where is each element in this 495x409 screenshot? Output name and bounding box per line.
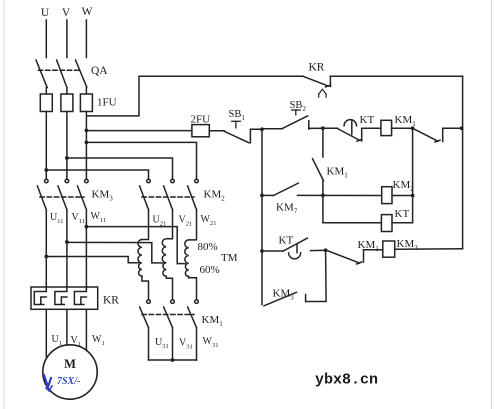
svg-text:U11: U11 [50, 212, 64, 225]
contact KM1 self-holding NO [313, 159, 324, 181]
wire control feed top (W tap to upper rail) [87, 76, 303, 116]
svg-text:TM: TM [221, 252, 238, 264]
switch QA pole 3 [76, 60, 87, 87]
wire to KM3 coil [364, 249, 383, 251]
wire U fuse to KM3 contact [45, 112, 47, 180]
wire KM3 coil to right rail [395, 248, 463, 251]
wire self-hold branch upper [322, 128, 324, 157]
fuse 1FU-b [61, 94, 73, 112]
wire KM3-a to KR [45, 210, 47, 287]
wire row3 rail to KT contact [262, 250, 283, 252]
wire KR to motor W1 [85, 309, 87, 350]
contactor KM2 main contact b [164, 179, 175, 210]
relay KR heater box [31, 287, 98, 309]
svg-text:U1: U1 [52, 334, 62, 347]
relay KR heater element c [74, 287, 86, 305]
wire W below QA [85, 87, 87, 94]
node W-KM2 tap [85, 141, 89, 145]
contactor KM1 linkage (dashed) [142, 314, 194, 316]
border frame right [491, 0, 493, 409]
svg-text:60%: 60% [200, 264, 220, 276]
svg-text:KM1: KM1 [202, 314, 224, 328]
wire row2 rail to contact [262, 194, 274, 196]
coil KT [381, 215, 392, 232]
svg-text:KT: KT [395, 208, 410, 220]
contact KM3 self-holding NO [264, 292, 306, 306]
coil KM1 [381, 120, 392, 135]
contact KT NC timed-opening (row 1) [338, 120, 362, 142]
svg-text:KT: KT [279, 235, 294, 247]
svg-text:KM7: KM7 [276, 202, 298, 216]
contactor KM2 main contact c [188, 179, 199, 210]
wire KT contact to node E [311, 249, 326, 251]
node rail row1 [460, 126, 464, 130]
button SB1 (NC stop) [224, 121, 262, 143]
svg-text:M: M [64, 357, 76, 371]
svg-text:KT: KT [360, 114, 375, 126]
watermark blue logo [44, 375, 52, 391]
contactor KM3 main contact a [37, 179, 48, 210]
wire KM1-a down [148, 328, 150, 361]
wire KR to motor U1 [45, 309, 47, 358]
svg-text:U21: U21 [153, 215, 167, 228]
wire KM2 coil right [392, 195, 413, 197]
wire V below QA [66, 88, 68, 95]
node C [411, 126, 415, 130]
svg-text:SB1: SB1 [229, 109, 246, 122]
switch QA pole 2 [57, 60, 67, 88]
switch QA pole 1 [36, 60, 47, 88]
svg-text:7SX/-: 7SX/- [57, 376, 80, 387]
wire KM2-c to TM3 top [189, 210, 197, 240]
svg-text:V: V [62, 7, 71, 19]
wire KM2-a to TM1 top [142, 210, 149, 240]
contactor KM3 main contact c [78, 179, 89, 210]
contactor KM1 main contact c [188, 300, 199, 328]
wire phase U top [45, 20, 47, 58]
wire TM1 bottom to KM1-a [142, 276, 149, 299]
svg-text:ybx8.cn: ybx8.cn [315, 372, 378, 389]
wire V11 tap to TM2 [67, 242, 163, 263]
svg-text:KM3: KM3 [92, 189, 114, 203]
node W-2FU junction [85, 129, 89, 133]
node V-KM2 tap [65, 156, 69, 160]
contactor KM2 linkage (dashed) [142, 196, 194, 198]
contact KM1 NC (row 3) [326, 250, 364, 264]
node B (after SB2) [321, 126, 325, 130]
wire W11 tap to TM3 [86, 227, 185, 264]
svg-text:QA: QA [91, 65, 108, 77]
wire TM2 bottom to KM1-b [166, 276, 172, 299]
wire coil return rail [412, 128, 414, 222]
wire self-hold branch lower [322, 181, 324, 223]
node KM2 coil rail [411, 194, 415, 198]
transformer TM winding 1 [138, 240, 142, 277]
wire KM3-c to KR [85, 210, 87, 287]
wire KM1-c down [196, 328, 198, 361]
wire W to 2FU [86, 130, 191, 132]
wire KM2-b to TM2 top [166, 210, 172, 239]
transformer TM winding 2 [162, 239, 166, 277]
svg-text:V21: V21 [179, 215, 193, 228]
node U-KM2 tap [44, 168, 48, 172]
contactor KM2 main contact a [140, 179, 151, 210]
svg-text:KM2: KM2 [204, 189, 226, 203]
wire U11 tap to TM1 [46, 257, 138, 263]
svg-text:V11: V11 [72, 212, 86, 225]
node A (after SB1) [260, 127, 264, 131]
wire phase V top [66, 20, 68, 58]
svg-text:U31: U31 [155, 337, 169, 350]
wire right rail [462, 76, 464, 249]
contactor KM3 linkage (dashed) [40, 196, 84, 198]
fuse 2FU [192, 125, 209, 137]
wire KT coil right [392, 222, 413, 224]
wire U below QA [45, 88, 47, 95]
svg-text:80%: 80% [198, 241, 218, 253]
contactor KM1 main contact a [140, 300, 151, 328]
node U11 tap [44, 255, 48, 259]
node E [324, 248, 328, 252]
node row2 left rail junction [260, 194, 264, 198]
svg-text:KM2: KM2 [393, 179, 415, 193]
contact KM7 NC (row 2) [274, 183, 299, 195]
svg-text:KM3: KM3 [273, 288, 295, 302]
wire KM3-b to KR [66, 210, 68, 287]
wire KM1 coil to node C [392, 127, 413, 129]
svg-text:W: W [82, 6, 93, 18]
contact KM interlock NC (row 1) [413, 128, 463, 142]
node row3 left rail junction [260, 249, 264, 253]
wire phase W top [85, 20, 87, 58]
svg-text:KM1: KM1 [327, 166, 349, 180]
svg-text:W21: W21 [201, 214, 217, 227]
contactor KM3 main contact b [58, 179, 69, 210]
wire upper rail to right corner [330, 75, 462, 77]
svg-text:KR: KR [309, 62, 325, 74]
svg-text:2FU: 2FU [191, 114, 211, 126]
relay KR heater element b [55, 287, 67, 305]
svg-text:KR: KR [103, 295, 119, 307]
coil KM3 [383, 241, 395, 257]
svg-text:U: U [41, 7, 50, 19]
svg-text:W1: W1 [92, 334, 105, 347]
wire KR to motor V1 [66, 309, 68, 345]
border frame left [3, 0, 5, 409]
fuse 1FU-a [40, 94, 52, 112]
wire V fuse to KM3 contact [66, 112, 68, 180]
node star point [171, 358, 175, 362]
contactor KM1 main contact b [164, 300, 175, 328]
wire TM3 bottom to KM1-c [189, 277, 197, 300]
wire U tap to KM2-a [46, 170, 148, 179]
contact KT NO timed-closing (row 3) [283, 238, 307, 259]
switch QA linkage (dashed) [39, 69, 81, 71]
node V11 tap [65, 240, 69, 244]
fuse 1FU-c [80, 94, 92, 112]
wire V tap to KM2-b [67, 158, 173, 179]
svg-text:1FU: 1FU [97, 97, 117, 109]
svg-text:V31: V31 [179, 338, 193, 351]
wire W fuse to KM3 contact [85, 112, 87, 180]
svg-text:KM1: KM1 [395, 114, 417, 128]
wire 2FU to SB1 [209, 130, 224, 132]
relay KR heater element a [34, 287, 46, 305]
motor M circle [43, 345, 97, 399]
node W11 tap [85, 225, 89, 229]
svg-text:W11: W11 [91, 211, 107, 224]
wire left control rail [261, 129, 263, 304]
wire row2 to KM2 coil [298, 194, 382, 196]
svg-text:W31: W31 [203, 336, 219, 349]
wire KT coil feed [323, 222, 382, 224]
relay KR NC contact (top) [303, 76, 331, 97]
node D (row2 tap) [321, 194, 325, 198]
wire node B to KT contact [323, 127, 338, 129]
wire KM1-b down [172, 328, 174, 361]
coil KM2 [382, 187, 392, 204]
wire KM3 self-hold riser [306, 250, 327, 301]
wire KT to KM1 coil [362, 127, 381, 129]
wire W tap to KM2-c [86, 142, 196, 179]
transformer TM winding 3 [185, 240, 189, 277]
wire star point bar [149, 359, 197, 361]
button SB2 (NO start) [262, 110, 323, 129]
